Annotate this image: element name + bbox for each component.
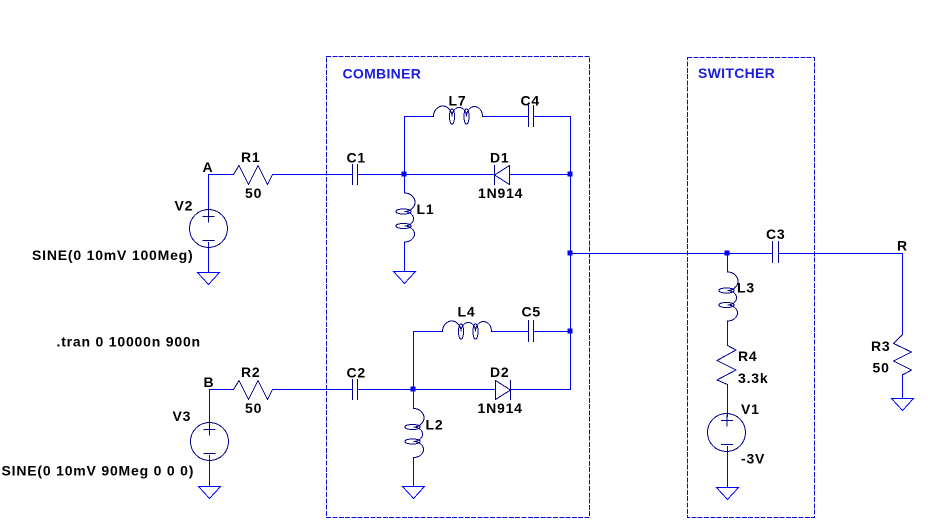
capacitor C3 <box>773 242 779 263</box>
capacitor C2 <box>353 380 358 400</box>
wire junction to L1 <box>404 175 406 194</box>
svg-text:V2: V2 <box>175 198 194 214</box>
ground under V3 <box>199 487 221 499</box>
inductor L2 <box>405 409 424 458</box>
ground under R3 <box>892 399 914 411</box>
voltage source V3 <box>191 423 229 461</box>
svg-text:C1: C1 <box>347 150 367 166</box>
wire V2 to ground <box>208 243 210 273</box>
inductor L7 <box>434 106 483 124</box>
junction C5 right <box>568 329 573 334</box>
svg-text:C2: C2 <box>347 365 367 381</box>
svg-text:B: B <box>204 374 215 390</box>
capacitor C1 <box>353 165 358 185</box>
wire A to V2 <box>208 175 210 213</box>
svg-text:R3: R3 <box>871 338 891 354</box>
junction L3 top <box>725 251 730 256</box>
svg-text:D2: D2 <box>490 364 510 380</box>
diode D2 <box>496 381 511 400</box>
wire C1 to D1 <box>358 174 495 176</box>
wire B to V3 <box>209 390 211 426</box>
voltage source V1 <box>708 414 746 452</box>
wire output to C3 <box>571 253 773 255</box>
resistor R2 <box>234 381 273 400</box>
wire bottom loop left <box>414 332 443 390</box>
wire L7 to C4 <box>484 116 529 118</box>
wire V3 to ground <box>209 456 211 487</box>
svg-text:3.3k: 3.3k <box>738 370 768 386</box>
junction D1 right <box>568 172 573 177</box>
resistor R1 <box>234 166 273 185</box>
wire R3 to ground <box>902 375 904 399</box>
svg-text:L2: L2 <box>426 417 444 433</box>
junction node A-C1 <box>402 172 407 177</box>
svg-text:R1: R1 <box>241 149 261 165</box>
junction output node <box>568 251 573 256</box>
svg-text:C5: C5 <box>522 304 542 320</box>
wire L1 to ground <box>404 242 406 272</box>
wire D2 to right vertical <box>511 389 571 391</box>
svg-text:R: R <box>897 238 908 254</box>
inductor L4 <box>443 321 492 339</box>
diode D1 <box>495 166 510 185</box>
svg-text:V3: V3 <box>173 408 192 424</box>
ground under L2 <box>403 487 425 499</box>
wire L3 to R4 <box>727 321 729 346</box>
svg-text:50: 50 <box>873 360 890 376</box>
resistor R4 <box>717 346 736 385</box>
wire B stub <box>210 389 234 391</box>
junction node B-C2 <box>411 387 416 392</box>
svg-text:R4: R4 <box>738 348 758 364</box>
svg-text:COMBINER: COMBINER <box>343 66 422 82</box>
capacitor C4 <box>529 106 534 127</box>
svg-text:SINE(0 10mV 90Meg 0 0 0): SINE(0 10mV 90Meg 0 0 0) <box>2 463 195 479</box>
ground under L1 <box>394 272 416 284</box>
wire C2 to D2 <box>358 389 496 391</box>
svg-text:C4: C4 <box>521 93 541 109</box>
voltage source V2 <box>190 210 228 248</box>
svg-text:1N914: 1N914 <box>478 400 523 416</box>
svg-text:50: 50 <box>245 400 262 416</box>
wire C4 to loop right <box>534 117 571 175</box>
wire node to L3 <box>727 254 729 273</box>
capacitor C5 <box>529 321 534 342</box>
resistor R3 <box>894 335 912 376</box>
wire top loop left <box>405 117 433 175</box>
svg-text:D1: D1 <box>490 150 510 166</box>
wire L2 to ground <box>413 458 415 487</box>
svg-text:SWITCHER: SWITCHER <box>698 65 775 81</box>
svg-text:V1: V1 <box>741 401 760 417</box>
svg-text:-3V: -3V <box>741 451 765 467</box>
svg-text:L4: L4 <box>458 304 476 320</box>
box COMBINER <box>327 57 590 518</box>
wire junction to L2 <box>413 390 415 409</box>
svg-text:50: 50 <box>245 185 262 201</box>
inductor L1 <box>396 193 415 242</box>
wire R4 to V1 <box>727 385 729 417</box>
svg-text:L3: L3 <box>737 280 755 296</box>
ground under V1 <box>717 488 739 500</box>
svg-text:R2: R2 <box>241 364 261 380</box>
wire C5 to loop right <box>534 331 571 333</box>
wire V1 to ground <box>727 447 729 488</box>
box SWITCHER <box>688 58 815 518</box>
svg-text:A: A <box>203 159 214 175</box>
svg-text:SINE(0 10mV 100Meg): SINE(0 10mV 100Meg) <box>32 247 193 263</box>
svg-text:1N914: 1N914 <box>478 185 523 201</box>
ground under V2 <box>198 273 220 285</box>
svg-text:L7: L7 <box>449 93 467 109</box>
inductor L3 <box>719 272 738 321</box>
svg-text:.tran 0 10000n 900n: .tran 0 10000n 900n <box>57 334 201 350</box>
wire A stub <box>209 174 234 176</box>
wire right vertical <box>570 175 572 390</box>
wire D1 to node <box>510 174 571 176</box>
wire R1 to C1 <box>273 174 353 176</box>
svg-text:L1: L1 <box>417 201 435 217</box>
wire C3 to R corner <box>779 254 903 335</box>
wire L4 to C5 <box>493 331 529 333</box>
wire R2 to C2 <box>273 389 353 391</box>
svg-text:C3: C3 <box>766 226 786 242</box>
